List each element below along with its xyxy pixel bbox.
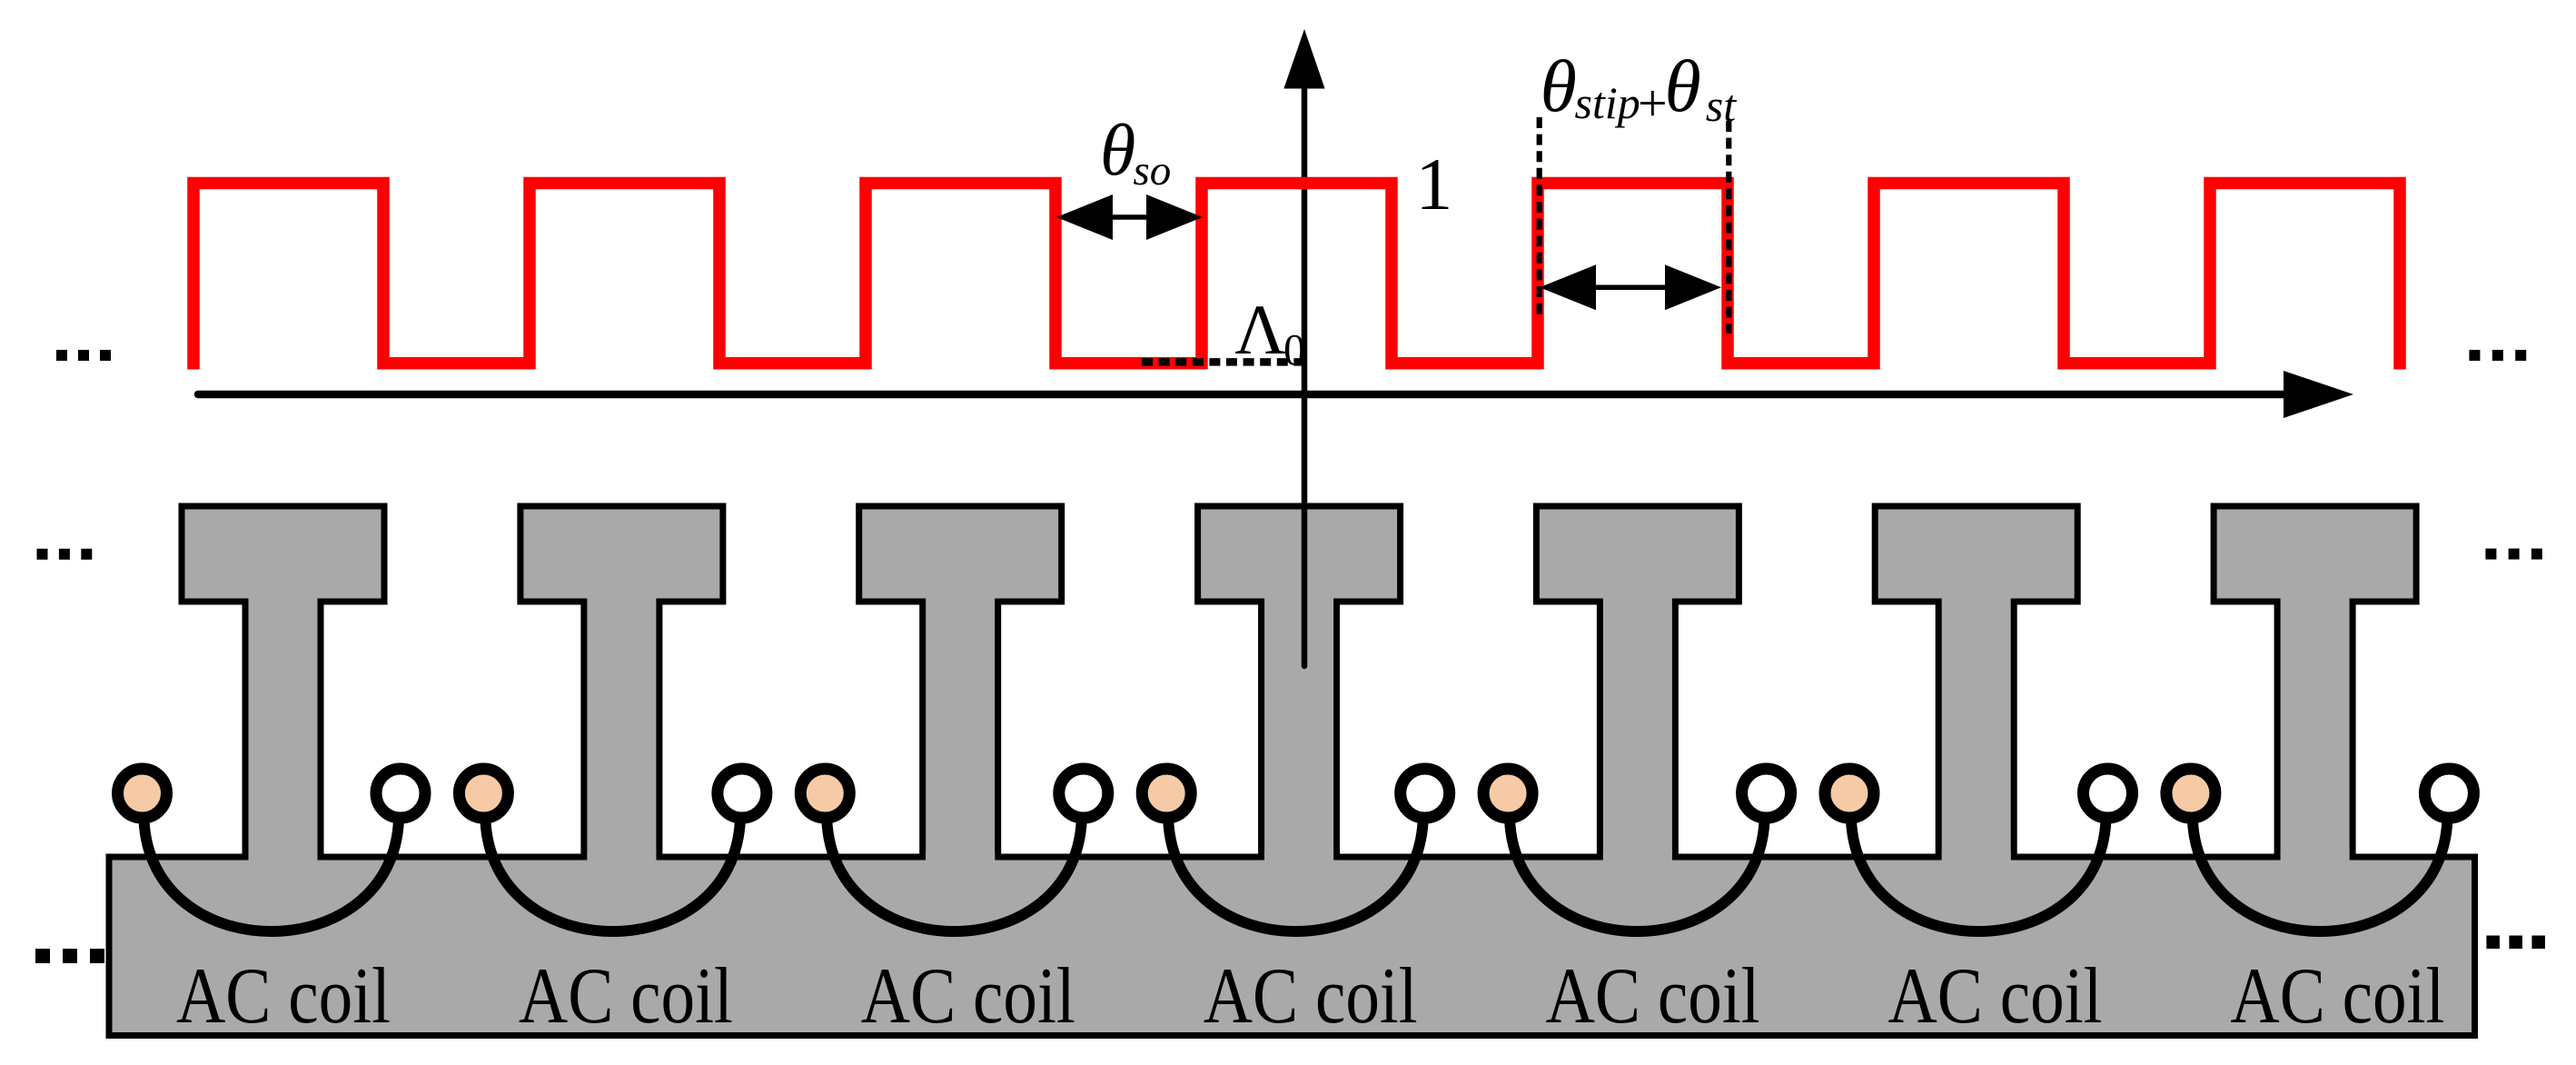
label "AC coil" 3 — [861, 952, 1075, 1040]
label 1 (unit amplitude) — [1415, 143, 1452, 225]
label "AC coil" 5 — [1546, 952, 1760, 1040]
svg-text:AC coil: AC coil — [519, 952, 733, 1040]
svg-text:1: 1 — [1415, 143, 1452, 225]
svg-text:AC coil: AC coil — [1546, 952, 1760, 1040]
stator yoke — [109, 857, 2475, 1036]
coil 4 right conductor (cross, open) — [1401, 769, 1450, 818]
label "AC coil" 4 — [1204, 952, 1418, 1040]
ellipsis dots middle-left — [37, 549, 93, 560]
coil 5 right conductor (cross, open) — [1742, 769, 1791, 818]
stator tooth T6 — [1875, 506, 2077, 862]
coil 2 right conductor (cross, open) — [718, 769, 767, 818]
dashed leader line at Lambda0 level — [1142, 358, 1303, 366]
ellipsis dots bottom-right — [2486, 936, 2545, 950]
coil 1 right conductor (cross, open) — [376, 769, 425, 818]
svg-text:θ: θ — [1100, 111, 1135, 191]
coil 3 right conductor (cross, open) — [1059, 769, 1108, 818]
label theta_so — [1100, 111, 1171, 194]
double arrow for theta_stip+theta_st (tooth pitch) — [1540, 264, 1721, 310]
label "AC coil" 1 — [176, 952, 391, 1040]
svg-text:AC coil: AC coil — [176, 952, 391, 1040]
coil end-winding arc 1 — [144, 820, 400, 931]
label "AC coil" 7 — [2230, 952, 2444, 1040]
svg-text:so: so — [1134, 147, 1172, 194]
coil end-winding arc 7 — [2193, 820, 2448, 931]
ellipsis dots middle-right — [2485, 549, 2541, 560]
red air-gap permeance square waveform — [193, 184, 2400, 370]
stator tooth T2 — [520, 506, 723, 862]
ellipsis dots bottom-left — [35, 949, 104, 963]
svg-text:AC coil: AC coil — [2230, 952, 2444, 1040]
dashed extension line at falling edge (theta_st) — [1726, 121, 1731, 333]
label "AC coil" 2 — [519, 952, 733, 1040]
coil end-winding arc 3 — [827, 820, 1082, 931]
stator tooth T5 — [1536, 506, 1739, 862]
svg-text:+: + — [1638, 74, 1668, 133]
coil end-winding arc 5 — [1510, 820, 1765, 931]
coil end-winding arc 2 — [485, 820, 740, 931]
label Lambda_0 — [1234, 290, 1305, 374]
svg-text:AC coil: AC coil — [1888, 952, 2103, 1040]
ellipsis dots top-right — [2469, 350, 2526, 361]
double arrow for theta_so (slot opening) — [1056, 194, 1203, 240]
svg-text:0: 0 — [1283, 324, 1306, 374]
coil 6 right conductor (cross, open) — [2084, 769, 2133, 818]
coil end-winding arc 6 — [1851, 820, 2106, 931]
coil 7 right conductor (cross, open) — [2424, 769, 2473, 818]
stator tooth T1 — [182, 506, 384, 862]
dashed extension line at rising edge (theta_stip) — [1537, 117, 1542, 316]
x-axis (theta axis) — [198, 371, 2353, 418]
svg-text:AC coil: AC coil — [861, 952, 1075, 1040]
coil 2 left conductor (dot, filled) — [459, 769, 508, 818]
svg-text:AC coil: AC coil — [1204, 952, 1418, 1040]
svg-text:stip: stip — [1575, 77, 1640, 128]
label theta_stip + theta_st — [1541, 45, 1738, 133]
coil 1 left conductor (dot, filled) — [118, 769, 167, 818]
svg-text:θ: θ — [1541, 45, 1577, 127]
svg-text:θ: θ — [1665, 45, 1701, 127]
svg-text:st: st — [1706, 80, 1737, 131]
coil 7 left conductor (dot, filled) — [2166, 769, 2215, 818]
y-axis (permeance axis) — [1283, 29, 1324, 666]
coil 5 left conductor (dot, filled) — [1483, 769, 1532, 818]
ellipsis dots top-left — [56, 350, 111, 361]
stator tooth T7 — [2214, 506, 2416, 862]
svg-text:Λ: Λ — [1234, 290, 1286, 369]
coil 4 left conductor (dot, filled) — [1142, 769, 1191, 818]
coil 6 left conductor (dot, filled) — [1825, 769, 1874, 818]
coil end-winding arc 4 — [1168, 820, 1423, 931]
label "AC coil" 6 — [1888, 952, 2103, 1040]
stator tooth T3 — [859, 506, 1062, 862]
coil 3 left conductor (dot, filled) — [800, 769, 849, 818]
stator tooth T4 — [1198, 506, 1401, 862]
